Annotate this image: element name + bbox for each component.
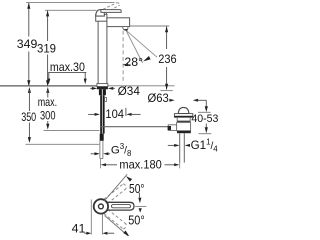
handle ext line A — [90, 200, 92, 235]
waste flange — [174, 114, 192, 118]
svg-text:40-53: 40-53 — [191, 113, 218, 125]
deck line — [0, 85, 97, 87]
dim 350 — [28, 87, 31, 93]
waste side fitting — [168, 125, 176, 131]
dim max.180 — [101, 163, 106, 166]
threaded shank — [100, 95, 104, 133]
pipe extension line — [99, 159, 101, 169]
mounting nut — [99, 89, 106, 95]
dashed lever top-view up — [104, 184, 126, 204]
waste upper body — [177, 117, 190, 121]
svg-text:max.180: max.180 — [119, 159, 161, 172]
dashed lever top-view down — [104, 209, 126, 229]
handle pivot circle — [94, 199, 108, 213]
svg-text:50°: 50° — [129, 182, 145, 196]
lever dome — [96, 10, 105, 17]
svg-text:319: 319 — [37, 42, 56, 56]
ref line max.300 bottom — [44, 130, 100, 132]
lever axis extension — [135, 205, 146, 207]
rotation ray bottom 50 — [105, 216, 129, 237]
svg-text:350: 350 — [21, 110, 36, 124]
dim G1 1/4 arrows — [168, 144, 175, 146]
ref line top 349 — [26, 2, 115, 4]
ref tick 236 bottom — [160, 90, 172, 92]
waste lower body — [177, 123, 191, 131]
svg-text:50°: 50° — [128, 214, 145, 228]
deck line right — [108, 85, 175, 87]
faucet body column — [97, 21, 99, 83]
leader line to 236 — [127, 31, 157, 57]
arrow 28 left — [127, 64, 131, 66]
svg-text:28°: 28° — [124, 55, 143, 69]
faucet spout — [107, 18, 130, 27]
svg-text:300: 300 — [40, 109, 56, 123]
svg-text:349: 349 — [17, 37, 38, 51]
lever step — [105, 12, 107, 14]
dim 104 — [88, 113, 95, 115]
svg-text:max.: max. — [38, 96, 57, 109]
base plate — [97, 84, 108, 87]
arc arrow top near lever — [138, 193, 140, 198]
dashed lever raised — [99, 3, 120, 15]
rod attach hook — [105, 98, 107, 102]
drain pipe extension — [179, 163, 181, 169]
ref line 350 bottom — [26, 143, 100, 145]
handle ext line B — [101, 214, 103, 235]
dim max.300 — [46, 87, 49, 93]
handle slot — [112, 205, 131, 208]
tick 104 right — [125, 108, 127, 116]
stream dash line — [122, 31, 124, 81]
lever bar — [101, 10, 121, 13]
waste knob — [178, 107, 189, 113]
base gasket dark — [97, 87, 108, 90]
stream angle line 28deg — [126, 31, 142, 63]
arrow on stream line — [143, 56, 151, 61]
handle lever bar — [107, 202, 134, 210]
svg-text:41: 41 — [72, 221, 86, 235]
waste bottom band — [177, 131, 191, 133]
dim G3/8 arrows — [91, 153, 95, 155]
G3/8 thread tip — [100, 134, 104, 141]
aerator — [123, 27, 128, 31]
arc arrow bottom near lever — [139, 208, 142, 212]
pop-up rod — [100, 126, 170, 128]
dim Ø34 — [90, 87, 93, 89]
dim 319 line — [47, 11, 49, 41]
rotation ray top 50 — [104, 174, 127, 201]
svg-text:104: 104 — [105, 107, 124, 121]
handle inner circle — [99, 204, 104, 209]
dim 40-53 — [205, 100, 207, 107]
ref line top 319 — [45, 9, 97, 11]
ref line 236 top — [130, 25, 170, 27]
dim 349 line — [28, 3, 30, 37]
dim Ø63 arrows — [170, 99, 171, 101]
supply pipe end — [99, 141, 101, 159]
drain pipe — [179, 133, 181, 162]
svg-text:Ø34: Ø34 — [118, 84, 141, 98]
svg-text:Ø63: Ø63 — [148, 91, 169, 105]
svg-text:236: 236 — [158, 52, 177, 66]
dim 236 — [166, 26, 168, 49]
faucet head block — [96, 14, 107, 21]
